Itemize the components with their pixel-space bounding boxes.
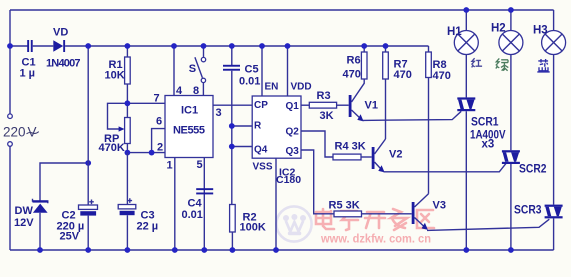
label lan (blue) [537,59,549,72]
svg-text:Q3: Q3 [286,146,300,157]
svg-text:H3: H3 [533,25,548,37]
svg-text:470: 470 [433,70,451,82]
svg-text:V1: V1 [365,99,378,111]
pin 8 wire with switch S [203,46,205,57]
svg-text:3: 3 [216,107,222,119]
svg-text:EN: EN [265,82,279,93]
wire V3 emitter to SCR3 gate [427,219,549,230]
wire pins 2-6 junction [127,129,165,153]
svg-text:SCR2: SCR2 [519,164,547,176]
svg-text:Q1: Q1 [286,101,300,112]
resistor R6 470 [343,46,368,80]
svg-text:www. dzkfw. com. cn: www. dzkfw. com. cn [320,232,431,246]
resistor R1 [105,46,131,103]
svg-text:R4 3K: R4 3K [335,140,366,152]
svg-text:SCR3: SCR3 [514,205,542,217]
diode VD 1N4007 [46,27,81,70]
wire Q2 route to R4 [301,131,333,157]
wire Q3 route to R5 [301,150,334,214]
wire R4 to V2 base [361,156,372,158]
svg-text:V: V [28,125,37,140]
wire R3 to V1 base [337,104,349,106]
svg-text:470K: 470K [99,142,125,154]
pin EN wire [261,46,263,96]
transistor V2 [372,139,403,172]
wire lower terminal to bottom rail [9,146,11,250]
svg-text:NE555: NE555 [173,124,205,136]
lamp H3 [533,10,566,55]
svg-text:R6: R6 [347,54,361,66]
svg-text:25V: 25V [60,231,80,243]
svg-text:4: 4 [176,85,183,97]
node dots bottom rail [37,247,514,253]
node dot pin2 wire [149,150,155,156]
svg-text:C5: C5 [245,64,259,76]
svg-text:7: 7 [154,92,160,104]
svg-text:IC1: IC1 [181,105,198,117]
op IC2 C180 box [252,96,301,158]
svg-text:C4: C4 [188,198,203,210]
svg-text:x3: x3 [482,138,495,150]
potentiometer RP 470K [99,103,131,154]
node dots mid rail [7,43,388,49]
pin 4 wire [173,46,175,96]
switch S lower contact [201,78,205,82]
svg-text:R5 3K: R5 3K [329,199,360,211]
wire R input [232,125,252,127]
wire VD to R1 column [65,45,428,47]
node dot pin7 [125,100,131,106]
capacitor C2 220u 25V [57,46,98,250]
svg-text:6: 6 [156,116,162,128]
svg-text:S: S [189,63,196,75]
svg-text:R: R [254,121,262,132]
node dot R [229,123,235,129]
thyristor SCR2 [502,55,547,251]
label hong (red) [472,58,483,67]
svg-text:VD: VD [53,27,68,39]
lamp H2 [491,10,523,55]
node dot RP bottom [125,150,131,156]
resistor R3 3K [309,90,336,122]
resistor R4 3K [333,140,366,160]
wire Q4 tie [232,146,252,148]
svg-text:Q2: Q2 [286,126,300,137]
svg-text:DW: DW [15,205,34,217]
svg-text:VDD: VDD [291,82,312,93]
zener DW 12V [14,163,88,250]
main mid rail wire y=46 [10,45,28,47]
transistor V3 [412,194,446,230]
svg-text:Q4: Q4 [254,145,268,156]
svg-text:5: 5 [197,159,203,171]
node dot Q4 [229,144,235,150]
wire V2 emitter to SCR2 gate [384,163,507,172]
lamp H1 [447,10,478,55]
svg-text:1 µ: 1 µ [20,68,36,80]
wire V1 emitter to SCR1 gate [363,111,462,120]
svg-text:0.01: 0.01 [182,209,203,221]
resistor R7 470 [383,46,412,139]
capacitor C4 [182,188,214,221]
top rail wire [10,9,554,11]
capacitor C3 22u [118,153,158,250]
pin 3 wire IC1 to IC2 CP [213,104,252,106]
capacitor C1 [20,40,36,80]
switch S upper contact [201,57,205,61]
svg-text:C180: C180 [276,174,301,186]
wire R5 to V3 base [362,213,412,215]
watermark text dian zi kai fa qu [316,209,434,230]
svg-text:1N4007: 1N4007 [46,58,81,70]
svg-text:CP: CP [254,100,268,111]
svg-text:3K: 3K [320,110,334,122]
pin VDD wire [287,46,289,96]
svg-text:H2: H2 [491,23,506,35]
svg-text:470: 470 [343,68,361,80]
svg-text:220: 220 [3,125,26,140]
node dot DW branch [85,160,91,166]
svg-text:22 µ: 22 µ [137,221,159,233]
svg-text:V3: V3 [433,199,446,211]
bottom rail wire [10,249,554,251]
label lv (green) [496,58,509,70]
resistor R5 3K [329,199,362,217]
svg-text:470: 470 [394,69,412,81]
node dots top rail [463,7,513,13]
terminal lower circle [8,142,13,147]
wire C1 to VD [33,45,54,47]
svg-text:VSS: VSS [253,161,273,172]
pin 5 wire [203,158,205,251]
wire pin7 run to IC1 and to RP wiper [108,103,165,129]
svg-text:100K: 100K [240,221,266,233]
svg-text:12V: 12V [14,217,34,229]
svg-text:H1: H1 [447,26,462,38]
svg-text:R3: R3 [317,90,331,102]
op IC1 NE555 box [165,96,213,158]
thyristor SCR1 [457,55,505,251]
svg-text:1: 1 [167,160,173,172]
pin 1 wire [174,158,176,251]
svg-text:10K: 10K [105,69,125,81]
RP wiper arrowhead [119,126,125,131]
svg-text:2: 2 [157,141,163,153]
svg-text:SCR1: SCR1 [471,117,499,129]
left vertical wire to 220V terminal [9,10,11,114]
wire Q1 row [301,104,309,106]
resistor R8 470 [426,46,451,194]
transistor V1 [349,79,378,121]
capacitor C5 [223,64,260,88]
switch S lever [195,57,203,77]
svg-text:8: 8 [193,85,199,97]
watermark logo circle W [276,206,311,241]
resistor R2 100K [230,205,266,251]
capacitor C5 column with R2 [231,46,233,65]
thyristor SCR3 [514,55,563,251]
svg-text:0.01: 0.01 [239,76,260,88]
svg-text:V2: V2 [389,148,402,160]
terminal upper circle [8,114,13,119]
